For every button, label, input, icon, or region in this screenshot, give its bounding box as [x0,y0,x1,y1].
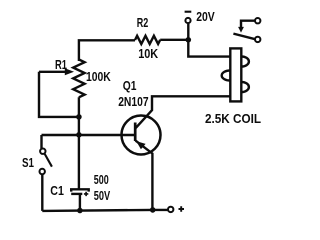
node R1 bottom junction dot [76,114,82,120]
R1 wiper arrow shaft [39,71,67,73]
wire node J1 up to -20V terminal [187,23,189,39]
node C1 bottom junction dot [77,208,83,214]
wire S1 bottom terminal down to ground rail [41,174,43,211]
terminal -20V circle [185,18,190,23]
relay coil core rectangle [230,48,241,101]
switch S1 top terminal circle [40,149,45,154]
node J1 junction dot [186,37,192,43]
coil loop left middle [222,70,231,80]
svg-text:Q1: Q1 [123,78,137,93]
relay armature link wire with corner [241,21,255,28]
resistor R2 10K zigzag [135,36,160,44]
transistor Q1 circle [122,116,161,155]
transistor Q1 emitter lead down to ground rail [136,141,153,210]
wire S1 corner down to switch top terminal [40,135,42,149]
switch S1 bottom terminal circle [40,169,45,174]
R1 wiper arrowhead [65,68,74,75]
svg-text:20V: 20V [196,9,215,24]
coil loop right lower [241,82,249,92]
svg-text:2.5K COIL: 2.5K COIL [205,111,261,126]
plus sign of battery terminal [179,206,185,211]
svg-text:S1: S1 [22,155,34,170]
node emitter junction dot [150,207,156,213]
wire wiper return loop left and bottom [39,72,79,117]
minus sign of 20V supply [185,11,192,13]
wire base rail from S1 corner to Q1 base bar [42,134,136,136]
coil loop right upper [241,56,249,66]
svg-text:500: 500 [94,172,109,187]
wire node J1 down then right to relay coil top [188,40,230,57]
svg-text:C1: C1 [50,183,64,198]
relay contact bottom terminal circle [255,37,260,42]
wire bottom ground rail to + terminal [42,210,168,211]
relay armature arrowhead [238,27,244,33]
relay contact blade [233,34,255,40]
wire top rail from R1 top to R2 left lead [79,40,135,61]
svg-text:100K: 100K [86,69,111,84]
node base rail junction dot [76,132,82,138]
transistor Q1 emitter arrowhead (PNP) [136,141,145,149]
wire R2 right lead to node J1 [160,39,188,41]
terminal + battery circle [168,207,173,212]
relay contact stationary terminal top circle [255,18,260,23]
capacitor C1 top plate with end hooks [71,189,89,191]
wire C1 bottom plate to ground rail [79,194,81,211]
svg-text:2N107: 2N107 [118,94,148,109]
capacitor C1 bottom plate [71,193,82,195]
switch S1 blade [44,153,52,166]
svg-text:50V: 50V [94,188,111,203]
svg-text:R1: R1 [55,57,67,72]
svg-text:R2: R2 [137,15,149,30]
plus polarity mark of C1 [84,192,88,196]
svg-text:10K: 10K [138,46,159,61]
transistor Q1 base bar [134,123,137,142]
potentiometer R1 100K zigzag [73,60,84,98]
transistor Q1 collector lead and wire to coil bottom [135,96,230,128]
wire R1 bottom lead down through junctions to capacitor C1 [78,97,80,189]
